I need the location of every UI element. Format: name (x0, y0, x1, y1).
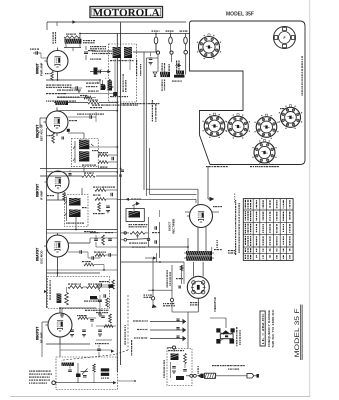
speaker jack 3 (184, 50, 188, 54)
gen filter label (168, 350, 170, 351)
V3 cathode resistor (63, 193, 66, 201)
wire V2 mid row (68, 116, 90, 118)
speaker field vertical label (53, 32, 54, 35)
oscillator coil box (48, 277, 110, 309)
speaker plug socket chassis view (274, 27, 296, 49)
wire feed arrow junction (145, 257, 154, 259)
wire V2 cathode (56, 133, 58, 137)
wire V4 right (68, 242, 90, 244)
tube socket 6V6GT chassis view (199, 37, 220, 58)
speaker field block (160, 72, 170, 77)
wire jack row (155, 44, 157, 51)
wire stage1 rows (57, 93, 117, 95)
misc parts row 285 (99, 283, 101, 287)
wire vib top (193, 262, 195, 277)
tube socket 6SA7GT chassis view (228, 116, 249, 137)
tone capacitor (84, 51, 88, 53)
resistor cluster V2b (98, 154, 108, 157)
IF transformer T5 box (64, 195, 88, 227)
wires into transformer (121, 246, 188, 248)
antenna trim parts (93, 364, 96, 372)
tone cap cluster (94, 238, 98, 240)
output trans labels 2 (92, 51, 94, 52)
V3 resistor network (95, 189, 106, 192)
cap to gnd mid (149, 57, 153, 59)
wire vib to filter (187, 312, 189, 349)
label speaker field (90, 46, 91, 47)
wire row 270 (47, 269, 118, 271)
IF T5 primary (69, 198, 81, 206)
antenna label (29, 371, 30, 372)
osc box labels (50, 280, 51, 281)
svg-text:MOTOROLA: MOTOROLA (93, 8, 161, 19)
left mid wires (90, 232, 117, 234)
battery feed labels (144, 295, 146, 296)
electrolytic cluster (101, 84, 106, 90)
T6 labels (214, 249, 216, 250)
Motorola logo box (90, 7, 163, 18)
volume control element (129, 211, 141, 218)
tube socket 6X5GT chassis view (254, 142, 275, 163)
tube V3 6SK7GT (47, 171, 69, 193)
gang condenser section (81, 369, 89, 375)
speaker jack 2 (170, 51, 173, 54)
wire speaker return pair (143, 52, 145, 190)
voice coil wire labels (152, 100, 153, 102)
feedthrough C lead (150, 338, 186, 340)
wire top bus (47, 21, 186, 23)
volume labels (129, 224, 131, 225)
svg-text:RF AMP: RF AMP (40, 332, 44, 343)
wire speaker top (133, 51, 156, 53)
wire V5 cathode (59, 337, 61, 345)
chassis pin callouts (206, 166, 207, 167)
V5 bypass caps (70, 329, 74, 331)
bus junction cluster (121, 169, 124, 171)
wire row above V3 (40, 175, 82, 177)
wire ground vertical bus (120, 23, 122, 366)
svg-text:PWR AMP: PWR AMP (40, 62, 44, 76)
speaker area bottom labels (120, 103, 122, 104)
wire T4 right (89, 146, 117, 148)
wire row under V2 (40, 168, 117, 170)
left power parts (180, 266, 182, 271)
output transformer T2 primary (65, 39, 82, 44)
resistor 47 ohm (84, 96, 92, 99)
wire osc to tube (57, 257, 59, 277)
svg-text:OSC-MOD: OSC-MOD (40, 250, 44, 264)
wire rect sides (185, 211, 190, 213)
feedthrough B lead (150, 329, 186, 331)
chassis bottom-view outline (190, 21, 306, 165)
svg-text:545 KC TO 1600 KC: 545 KC TO 1600 KC (271, 309, 275, 347)
wire AVC bus (46, 128, 48, 308)
tube socket 6SQ7GT chassis view (281, 107, 301, 127)
IF T4 secondary (79, 151, 89, 161)
antenna coil bar (62, 363, 74, 366)
antenna top cap (97, 348, 101, 350)
wire V1 cathode (57, 71, 59, 80)
misc parts row 255 (95, 254, 105, 257)
spark plate buffer (216, 328, 220, 332)
wire T2 bottom (65, 44, 67, 48)
tube V4 6SA7GT (47, 235, 69, 257)
speaker field coil (113, 47, 121, 58)
left column bottom parts (98, 299, 102, 301)
tube V2 6SQ7GT (46, 111, 68, 133)
cathode resistor R12 (51, 72, 54, 81)
antenna bottom wire (56, 382, 114, 384)
speaker terminal arrow (175, 64, 181, 67)
wire V2 plate (56, 108, 58, 112)
page right edge (309, 0, 311, 397)
speaker plug pin 3 (184, 37, 188, 44)
antenna stage box (56, 357, 118, 390)
tone switch arrow (132, 202, 139, 206)
wire row above V2 (54, 102, 88, 104)
V2 grid wire (40, 117, 47, 119)
wire V1 plate stub (57, 48, 59, 52)
wire T4 top (83, 133, 85, 139)
svg-text:MODEL 35 F: MODEL 35 F (294, 308, 301, 357)
speaker plug pin 2 (169, 37, 173, 44)
wire V5 plate (59, 308, 61, 314)
wire V4 plate (57, 233, 59, 236)
gen filter choke (171, 354, 179, 361)
osc coil loops (65, 293, 69, 306)
wire V3 cathode (57, 193, 59, 201)
bypass cap C1 (75, 86, 77, 90)
wire return horizontals (146, 188, 198, 190)
label output trans (83, 40, 85, 41)
V5 screen network (78, 317, 88, 320)
IF transformer T4 box (71, 139, 98, 167)
wire osc bottom (61, 309, 63, 316)
speaker field dashed box (109, 44, 137, 102)
speaker feed arrow (90, 71, 108, 73)
wire rect top arrow (207, 166, 209, 199)
volume pot row (121, 232, 129, 234)
svg-text:RECTIFIER: RECTIFIER (172, 219, 176, 234)
resistor 250M top (88, 101, 99, 104)
svg-text:F: F (283, 36, 285, 40)
IF T4 primary (79, 140, 89, 150)
IF T5 trimmer arrows (66, 197, 68, 222)
speaker field bottom label (162, 80, 163, 81)
labels V3 (93, 187, 95, 188)
osc resistor 2 (87, 286, 101, 289)
spkr wire labels (136, 60, 137, 62)
wire return third (148, 148, 150, 194)
wire B+ vertical bus (116, 34, 118, 373)
IF frequency box (260, 311, 265, 346)
osc trimmer arrows (97, 287, 100, 304)
wire T5 drop (75, 217, 77, 230)
gang link diagonal (127, 295, 129, 350)
wire T4 bottom (83, 167, 85, 172)
volume control box (126, 209, 144, 222)
tube socket 6SK7GT chassis view (256, 117, 277, 138)
label cluster V2 (77, 114, 79, 115)
tube socket 6SG7GT chassis view (204, 116, 225, 137)
svg-text:FREQUENCY RANGE: FREQUENCY RANGE (267, 310, 271, 347)
osc avc arrow (44, 290, 47, 293)
junction blob V2 grid (67, 129, 70, 132)
spkr plug vertical labels (162, 63, 163, 65)
label text block stage1 (46, 85, 49, 86)
vibrator V7 (187, 276, 209, 298)
plug pin labels (152, 31, 154, 32)
IF T5 caption (66, 223, 67, 224)
osc trimmer right (108, 284, 113, 288)
A lead label (212, 365, 214, 366)
speaker jack 1 (156, 51, 159, 54)
V4 grid caps (79, 250, 81, 254)
V4 osc grid resistor (84, 263, 94, 266)
tube V1 6V6GT (47, 51, 68, 72)
speaker plug pin 1 (154, 37, 158, 44)
wire return drops (197, 189, 199, 205)
svg-text:I.F. = 262 KC: I.F. = 262 KC (261, 312, 265, 344)
speaker cone symbol (153, 72, 157, 77)
wire secondary top bus (80, 33, 190, 35)
antenna center wire (77, 363, 79, 383)
spark plate label (236, 327, 237, 329)
capacitor V1 grid (35, 51, 37, 54)
wire vib bottom (197, 298, 199, 312)
svg-text:MODEL 35F: MODEL 35F (226, 12, 254, 18)
battery feed wires (152, 258, 154, 297)
IF T5 secondary (69, 210, 81, 218)
capacitor grid V2 (89, 115, 91, 119)
dial label (125, 325, 126, 326)
svg-text:VIBRATOR: VIBRATOR (213, 296, 217, 312)
wire spark (225, 318, 227, 328)
resistor 30 ohm (64, 36, 80, 38)
osc coil dark (57, 294, 62, 303)
wire V5 grid left (42, 321, 49, 323)
antenna terminal (52, 381, 56, 385)
osc mid component (90, 296, 97, 299)
svg-text:IF AMP: IF AMP (40, 190, 44, 200)
row wires 230 (47, 229, 118, 231)
wire ant to filter (118, 380, 136, 382)
tube V5 6SG7GT (48, 313, 72, 337)
IF T4 caption (82, 165, 84, 166)
osc resistor 1 (68, 286, 83, 289)
resistor above V3 (82, 175, 95, 178)
antenna padder blocks (101, 368, 109, 371)
voltage chart table (243, 199, 293, 261)
wire vol right column (147, 217, 149, 247)
feedthrough A lead (150, 321, 186, 323)
gen filter box (167, 349, 192, 386)
IF T4 trimmers (74, 141, 76, 163)
power transformer T6 (186, 251, 212, 256)
bus side labels (123, 74, 124, 76)
voltage chart note (235, 200, 236, 201)
A battery shielded lead (186, 375, 190, 377)
page bottom edge (10, 396, 310, 398)
wire rect to trans (197, 227, 199, 251)
output transformer sec label (110, 60, 112, 61)
on-off switch (121, 239, 124, 241)
bottom view of chassis caption (302, 56, 303, 58)
electrolytic block (176, 71, 184, 75)
coil label small (55, 101, 68, 106)
feedthrough terminal (172, 346, 175, 349)
tube V6 6X5GT rectifier (190, 205, 213, 228)
V3 screen cap (69, 173, 72, 175)
